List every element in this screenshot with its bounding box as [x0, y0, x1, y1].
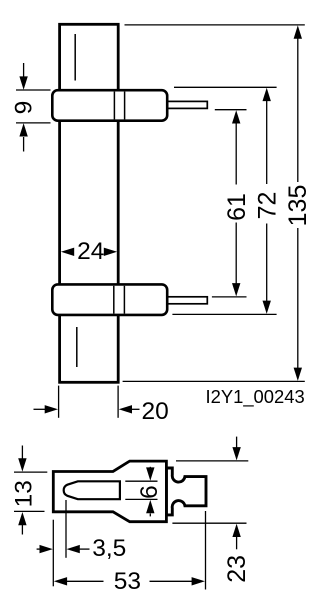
upper band groove line 1 — [113, 92, 115, 120]
svg-text:20: 20 — [142, 398, 169, 425]
dim 24 arrow right — [104, 248, 117, 256]
dim 9 extension line bottom — [16, 122, 51, 124]
upper mounting band — [52, 90, 167, 121]
svg-text:6: 6 — [136, 485, 163, 499]
dim 6 extension line bottom — [125, 498, 157, 500]
dim 72 extension line bottom — [172, 313, 276, 315]
dim 13 extension line bottom — [14, 510, 45, 512]
dim 53 line right segment with arrow right — [150, 577, 205, 585]
lower view crimp tab — [166, 468, 206, 515]
dim 6 arrow up — [146, 500, 154, 517]
dim 72 line upper segment with arrow up — [263, 88, 271, 184]
svg-text:13: 13 — [11, 480, 38, 507]
dim 3,5 extension line right — [65, 500, 67, 558]
dim 61 extension line bottom — [212, 296, 247, 298]
dim 3,5 arrow left-pointing — [67, 545, 90, 553]
dim 13 extension line top — [14, 471, 47, 473]
dim 135 extension line top — [125, 24, 305, 26]
lower mounting band — [52, 284, 167, 315]
upper band groove line 2 — [124, 92, 126, 120]
svg-text:72: 72 — [253, 192, 281, 220]
dim 53 extension line right — [205, 511, 207, 590]
dim 135 line upper segment with arrow up — [294, 25, 302, 182]
dim 53 line left segment with arrow left — [54, 577, 104, 585]
dim 20 extension line right — [117, 386, 119, 418]
dim 3,5 arrow right-pointing — [37, 545, 53, 553]
dim 6 arrow down — [146, 467, 154, 481]
dim 9 arrow up — [19, 123, 27, 151]
dim 135 line lower segment with arrow down — [294, 228, 302, 381]
svg-text:I2Y1_00243: I2Y1_00243 — [206, 386, 305, 408]
tube reflection line upper — [74, 34, 76, 81]
svg-text:3,5: 3,5 — [92, 535, 126, 562]
dim 72 extension line top — [174, 86, 277, 88]
dim 20 arrow right-pointing — [34, 405, 59, 413]
dim 20 arrow left-pointing — [119, 405, 140, 413]
lower band groove line 2 — [123, 286, 125, 314]
dim 13 arrow up — [18, 512, 26, 535]
svg-text:135: 135 — [284, 185, 312, 227]
lower band groove line 1 — [113, 286, 115, 314]
fuse body tube — [60, 24, 119, 382]
dim 23 arrow up — [232, 524, 240, 550]
dim 3,5 extension line left — [52, 520, 54, 587]
dim 23 extension line bottom — [172, 522, 246, 524]
dim 9 arrow down — [19, 63, 27, 90]
dim 20 extension line left — [58, 386, 60, 418]
svg-text:9: 9 — [11, 101, 38, 115]
upper terminal pin — [166, 101, 207, 108]
dim 23 extension line top — [176, 460, 248, 462]
svg-text:61: 61 — [223, 193, 251, 221]
dim 61 extension line top — [215, 109, 247, 111]
dim 61 line upper segment with arrow up — [232, 110, 240, 184]
dim 61 line lower segment with arrow down — [232, 223, 240, 297]
lower terminal pin — [166, 297, 207, 304]
dim 23 arrow down — [232, 437, 240, 461]
lower view body — [53, 461, 166, 522]
svg-text:24: 24 — [77, 238, 104, 265]
dim 72 line lower segment with arrow down — [263, 224, 271, 314]
dim 6 extension line top — [125, 480, 157, 482]
svg-text:23: 23 — [223, 555, 251, 583]
dim 9 extension line top — [16, 89, 51, 91]
dim 135 extension line bottom — [123, 380, 305, 382]
tube reflection line lower — [76, 327, 78, 367]
lower view blade slot — [64, 481, 120, 499]
dim 24 arrow left — [61, 248, 74, 256]
dim 13 arrow down — [18, 446, 26, 472]
svg-text:53: 53 — [114, 568, 141, 595]
